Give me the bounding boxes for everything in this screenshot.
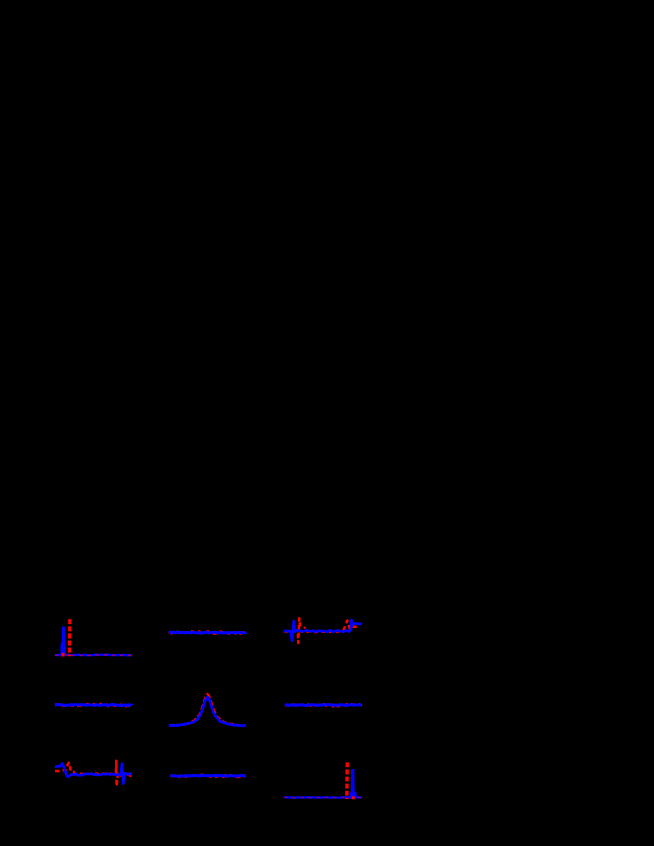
plot r2c2: blue response spike <box>350 769 356 798</box>
plot r0c2: red dashed noisy curve <box>284 618 360 643</box>
plot r0c0: red dashed vertical marker <box>68 619 72 656</box>
plot r0c1: red dashed model line <box>169 632 246 634</box>
plot r0c0: red dashed baseline <box>55 654 132 657</box>
plot r2c2: red dot at spike base <box>352 796 355 799</box>
plot r2c0: blue noisy curve with step <box>55 763 132 783</box>
plot r1c2: blue data line <box>285 703 361 707</box>
plot r2c1: blue data line <box>170 774 245 778</box>
plot r2c2: red dashed baseline <box>284 796 362 799</box>
plot r1c0: blue data line <box>55 703 132 707</box>
plot r1c2: red dashed model line <box>285 704 361 706</box>
plot r0c0: blue response spike <box>61 627 66 656</box>
plot r2c1: red dashed model line <box>170 775 245 777</box>
plot r1c1: red dashed peak <box>169 694 246 726</box>
plot r0c1: blue data line <box>169 631 246 635</box>
plot r1c1: blue solid peak <box>169 697 246 726</box>
plot r0c0: blue baseline <box>55 654 132 657</box>
plot r2c2: blue baseline <box>284 796 362 799</box>
plot r2c2: red dashed vertical marker <box>345 762 349 799</box>
plot r1c0: red dashed model line <box>55 704 132 706</box>
plot r0c2: red speck above line <box>304 627 306 629</box>
plot r0c2: blue noisy curve with step <box>284 620 362 641</box>
plot r0c0: red blob at spike base <box>61 653 64 657</box>
plot r2c0: red dashed noisy curve <box>55 761 132 787</box>
